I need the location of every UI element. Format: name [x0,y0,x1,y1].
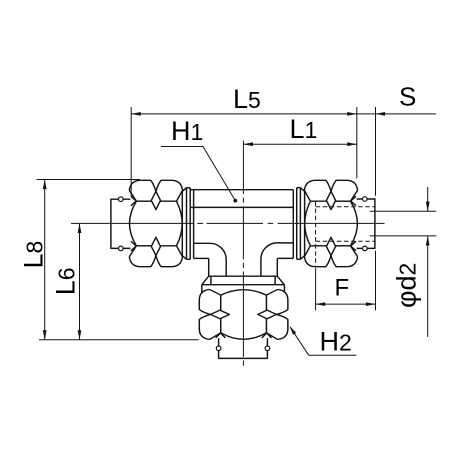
nut right (mirror of left nut) [304,180,357,266]
svg-text:φd2: φd2 [392,263,422,308]
arrow L1 left [243,142,253,146]
extension line top left (L8) [37,179,141,181]
arrow L1 right [347,142,357,146]
dimension line F [316,303,376,305]
svg-text:S: S [399,82,416,112]
body: inner fillet contour left [194,243,227,276]
arrow L8 top [43,180,47,190]
branch outer edge left [208,258,210,276]
dimension line L8 [44,180,46,340]
leader H1 [161,147,235,201]
arrowheads and dots [43,112,430,340]
arrow phi-d2 top [426,202,430,212]
arrow F right [366,302,376,306]
svg-text:F: F [335,274,350,301]
svg-text:L5: L5 [233,84,261,114]
arrowhead H2 [289,326,296,335]
dimension line L5 and S [131,113,436,115]
left tube stub [111,199,130,248]
bottom flange of branch [202,276,285,292]
svg-text:H2: H2 [320,327,352,357]
svg-text:L8: L8 [19,241,49,269]
arrow L5 right [347,112,357,116]
wire: horizontal center line [71,222,385,224]
arrow L5 left [131,112,141,116]
arrow L6 bottom [78,330,82,340]
nut H1 left (hex nut side view) [129,180,182,266]
svg-text:H1: H1 [171,116,203,146]
arrow L6 top [78,223,82,233]
extension line bottom (L8/L6) [39,339,199,341]
arrow S [376,112,386,116]
arrow L8 bottom [43,330,47,340]
nut H2 bottom (rotated copy) [199,289,288,339]
arrow F left [316,302,326,306]
hidden thread lines in right nut (dashed) [316,202,375,268]
dimension line L6 [79,223,81,339]
arrow phi-d2 bottom [426,236,430,246]
extension line stub face (S/F) [375,107,377,310]
wire: vertical branch center line [242,141,244,366]
collar/washers left of body [182,188,190,260]
stub circles [119,197,368,351]
branch outer edge right [276,258,278,276]
extension line right of nut (L5/L1) [356,107,358,179]
bottom tube stub [219,338,268,358]
collar/washers right of body (mirror) [297,188,305,260]
left nut top edge with V notch [129,180,182,191]
extension line left (L5) [130,107,132,196]
extension line F left [315,268,317,310]
leader H2 [290,327,356,355]
body: center block of tee [190,190,293,259]
dimension lines [37,107,437,355]
body: inner fillet contour right [261,243,293,276]
svg-text:L6: L6 [51,267,81,295]
dimension line phi-d2 [427,187,429,337]
leader dot H1 [233,199,237,203]
extension lines phi-d2 [370,211,437,236]
dimension line L1 [243,143,356,145]
svg-text:L1: L1 [290,114,318,144]
right tube stub [357,199,375,248]
